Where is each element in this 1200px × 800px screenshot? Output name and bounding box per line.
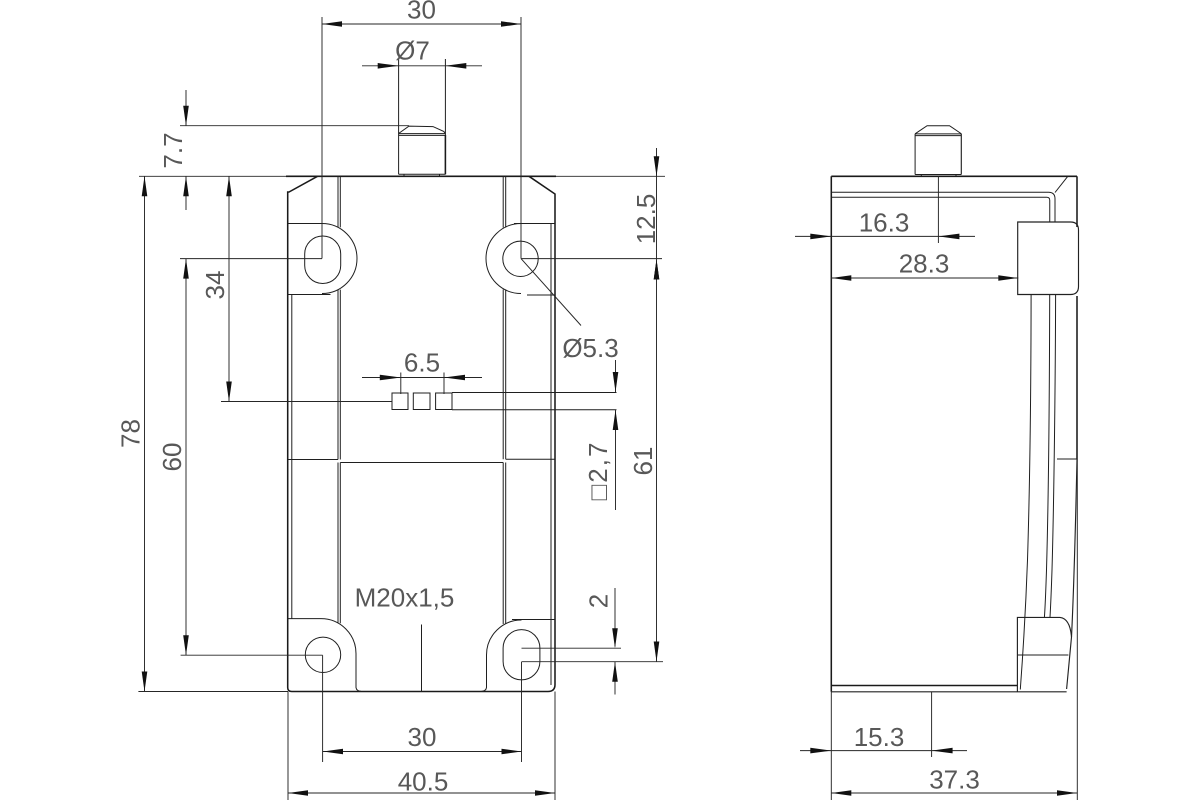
dim sq2.7 line	[615, 360, 617, 510]
slot BR	[503, 630, 540, 680]
square contact 3	[436, 393, 452, 410]
top edge extension left	[139, 175, 286, 177]
svg-text:34: 34	[200, 271, 230, 300]
dim O7 arrows	[378, 63, 399, 69]
dim 2 line	[614, 588, 616, 695]
body outline: chamfers, sides, bottom	[288, 176, 555, 691]
side right edge mid	[1076, 296, 1078, 459]
side center line	[937, 176, 939, 243]
side bottom line	[831, 691, 1066, 693]
svg-text:M20x1,5: M20x1,5	[355, 583, 455, 613]
side right edge upper	[1076, 176, 1078, 227]
boss arc BL	[321, 619, 361, 692]
side profile curve	[1020, 295, 1031, 690]
dim 40.5 exts	[288, 692, 555, 800]
top edge extension right	[556, 175, 665, 177]
M20 leader	[421, 625, 423, 692]
dim 30 bottom exts	[323, 655, 522, 762]
lug step TR	[527, 294, 555, 296]
lug top line TR	[514, 223, 555, 225]
svg-text:60: 60	[157, 443, 187, 472]
svg-text:30: 30	[407, 0, 436, 25]
dim 12.5 line	[656, 148, 658, 260]
lug center leader BL	[181, 654, 323, 656]
svg-text:37.3: 37.3	[929, 765, 980, 795]
lug step BR	[512, 619, 555, 621]
dim 6.5 line	[362, 377, 482, 379]
square contact 2	[413, 393, 430, 410]
body top edge	[286, 175, 556, 177]
dim 78 line	[144, 176, 146, 691]
plunger bottom front	[399, 174, 446, 176]
seam right	[506, 458, 555, 460]
groove lines right	[503, 176, 506, 624]
dim 40.5 line	[288, 792, 555, 794]
svg-text:6.5: 6.5	[404, 348, 440, 378]
dim 7.7 leader top	[180, 125, 409, 127]
dim 78 ext bottom	[138, 691, 288, 693]
slot TL	[305, 236, 341, 283]
seam middle	[340, 462, 503, 464]
leader O5.3	[521, 259, 581, 326]
svg-text:40.5: 40.5	[398, 767, 449, 797]
groove lines left	[338, 176, 340, 623]
seam left	[288, 459, 338, 461]
dim 15.3 line	[800, 750, 967, 752]
plunger front left side	[398, 59, 400, 174]
lug step TL	[287, 294, 331, 296]
svg-text:15.3: 15.3	[854, 722, 905, 752]
dim O7 line	[362, 65, 482, 67]
side left edge	[830, 176, 832, 692]
boss arc BR	[482, 620, 522, 691]
side clip	[1018, 222, 1079, 295]
dim 30 top ext right	[520, 17, 522, 259]
lug center leader TL	[180, 258, 322, 260]
svg-text:78: 78	[115, 419, 145, 448]
dim 15.3 leader	[931, 692, 933, 757]
dim 34 leader	[221, 401, 392, 403]
dim 30 top ext left	[321, 17, 323, 259]
svg-text:28.3: 28.3	[899, 249, 950, 279]
side foot mid line	[1017, 654, 1068, 656]
dim 34 line	[228, 176, 230, 401]
hole TR	[503, 241, 538, 276]
plunger front right side	[444, 59, 446, 174]
dim 16.3 line	[795, 235, 975, 237]
side inner curve 1	[1044, 295, 1049, 618]
side inner top lines	[831, 192, 1055, 222]
side seam	[1057, 458, 1077, 460]
leader TR right	[521, 258, 662, 260]
dim 30 top line	[322, 23, 521, 25]
svg-text:Ø5.3: Ø5.3	[562, 333, 618, 363]
squares leader top	[452, 392, 617, 394]
svg-text:16.3: 16.3	[859, 208, 910, 238]
side top edge	[831, 175, 1077, 177]
dim 6.5 ticks	[401, 373, 444, 395]
left inner edge line	[291, 295, 293, 619]
side foot box	[1017, 617, 1071, 691]
side bottom upper line	[831, 685, 1017, 687]
hole BL	[305, 637, 340, 672]
dim 30 bottom line	[323, 751, 522, 753]
svg-text:□2,7: □2,7	[583, 441, 613, 501]
svg-text:12.5: 12.5	[631, 194, 661, 245]
side right slant	[1072, 459, 1078, 637]
side plunger cap lines	[915, 134, 961, 136]
dim 37.3 line	[831, 792, 1077, 794]
side plunger dome	[915, 126, 961, 134]
lug top line TL	[288, 223, 322, 225]
plunger dome front	[399, 126, 446, 133]
boss arc TL	[322, 224, 357, 294]
slot leader bottom	[522, 661, 663, 663]
side chamfer	[1055, 176, 1068, 192]
dim 61 line	[656, 260, 658, 662]
dim 60 line	[185, 259, 187, 656]
boss arc TR	[486, 224, 521, 294]
lug step BL	[288, 618, 321, 620]
squares leader bottom	[452, 409, 617, 411]
dim 37.3 ext left	[830, 692, 832, 800]
side inner curve 2	[1050, 295, 1056, 618]
slot leader top	[522, 647, 622, 649]
svg-text:30: 30	[408, 722, 437, 752]
dim 7.7 line+arrows	[185, 90, 187, 210]
svg-text:61: 61	[628, 447, 658, 476]
dim 30 top arrows	[322, 21, 342, 27]
svg-text:2: 2	[584, 594, 614, 608]
side plunger left	[914, 134, 916, 175]
plunger cap lines front	[399, 134, 446, 136]
right inner edge line	[550, 224, 552, 685]
svg-text:Ø7: Ø7	[395, 36, 430, 66]
side plunger right	[960, 134, 962, 175]
dim 28.3 line	[831, 277, 1018, 279]
side plunger bottom	[915, 175, 961, 177]
square contact 1	[392, 393, 408, 410]
svg-text:7.7: 7.7	[158, 132, 188, 168]
side right ext lower	[1076, 459, 1078, 800]
